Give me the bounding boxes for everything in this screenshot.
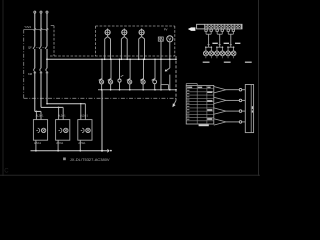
outgoing wire right xyxy=(175,56,177,101)
selector switch SA blade xyxy=(166,68,169,70)
drop to box2 right xyxy=(62,107,64,119)
svg-text:AP2x1: AP2x1 xyxy=(34,142,42,145)
outlet box 3 bottom stub xyxy=(79,140,81,151)
wire phase L2 lower xyxy=(40,71,42,107)
lamp pair labels xyxy=(203,61,210,63)
jumper loop xyxy=(161,84,169,86)
wire phase L2 upper xyxy=(40,14,42,47)
viewport frame xyxy=(2,0,4,176)
busduct text xyxy=(251,106,253,109)
wiring table xyxy=(186,85,214,124)
svg-text:QF: QF xyxy=(28,46,32,50)
svg-text:JX-DL/T5327-AC380V: JX-DL/T5327-AC380V xyxy=(70,157,110,162)
drop to box1 left xyxy=(35,111,37,119)
outlet box 2 xyxy=(56,120,70,141)
feeder run to box2 xyxy=(41,106,63,108)
svg-text:YJV4: YJV4 xyxy=(24,25,31,29)
svg-text:C: C xyxy=(4,169,9,175)
meter terminal blocks xyxy=(158,37,161,41)
incoming terminal circles L1 L2 L3 xyxy=(34,11,36,13)
feeder run to box1 xyxy=(35,110,41,112)
bus tag marker xyxy=(188,27,196,31)
wire phase L2 mid xyxy=(40,49,42,68)
bus from L3 xyxy=(47,58,176,60)
panel lamp HL3 xyxy=(141,28,143,29)
busduct xyxy=(245,85,253,133)
wire phase L1 lower xyxy=(34,71,36,111)
branch circuit 5 xyxy=(143,59,145,78)
panel lamp HL1 xyxy=(107,28,109,29)
neutral dashed bus / panel box bottom xyxy=(50,55,175,57)
leader line with conductor slashes xyxy=(24,29,49,31)
PE drop wire xyxy=(101,90,103,151)
table col1 marks xyxy=(187,86,189,88)
panel dashed box xyxy=(95,26,97,56)
signal lamp pair 3 xyxy=(227,29,229,31)
caption bullet xyxy=(63,158,66,161)
wire phase L1 mid xyxy=(34,49,36,68)
table header xyxy=(187,86,192,88)
signal lamp pair 1 xyxy=(205,29,207,31)
voltmeter PV xyxy=(167,36,173,42)
branch output bus xyxy=(98,89,176,91)
svg-text:AL2a-1: AL2a-1 xyxy=(36,114,44,117)
PE end marker xyxy=(107,149,109,153)
branch circuit 6 xyxy=(154,59,156,78)
outlet box 1 bottom stub xyxy=(35,140,37,151)
table cable texts xyxy=(207,91,212,93)
table footer label xyxy=(199,124,209,126)
voltmeter leg lower xyxy=(169,75,171,90)
svg-text:AL2a-1: AL2a-1 xyxy=(58,114,66,117)
breaker QF 3-pole with linkage xyxy=(33,46,35,49)
svg-text:PV: PV xyxy=(164,27,168,31)
PE bottom line xyxy=(31,150,108,152)
outlet box 3 xyxy=(78,120,92,141)
enclosure boundary left xyxy=(23,30,25,99)
outlet box 2 bottom stub xyxy=(57,140,59,151)
branch circuit 4 xyxy=(129,59,131,78)
contactor KM 3-pole xyxy=(34,68,35,71)
feeder run to box3 xyxy=(47,103,85,105)
strip drop labels xyxy=(212,42,217,44)
svg-text:AP2x1: AP2x1 xyxy=(78,142,86,145)
outgoing arrow xyxy=(173,101,176,106)
neutral hook xyxy=(51,25,54,27)
wire phase L3 upper xyxy=(46,14,48,47)
cable fan-out 3 xyxy=(214,108,226,111)
svg-text:AL2a-1: AL2a-1 xyxy=(80,114,88,117)
signal lamp pair 2 xyxy=(216,29,218,31)
wire phase L3 mid xyxy=(46,49,48,68)
branch circuit 3 xyxy=(119,59,121,78)
cable fan-out 2 xyxy=(214,97,226,100)
drop to box3 right xyxy=(84,104,86,120)
drop to box2 left xyxy=(58,107,60,119)
svg-text:AP2x1: AP2x1 xyxy=(56,142,64,145)
cable fan-out 4 xyxy=(214,119,226,122)
panel lamp HL2 xyxy=(123,28,125,29)
cable fan-out 1 xyxy=(214,87,226,90)
wire phase L1 upper xyxy=(34,14,36,47)
enclosure boundary bottom xyxy=(24,97,177,99)
branch circuit 1 xyxy=(101,59,103,78)
drop to box3 left xyxy=(80,104,82,120)
wire phase L3 lower xyxy=(46,71,48,104)
neutral dashed drop xyxy=(53,26,55,56)
meter terminal leg xyxy=(160,41,162,90)
branch circuit 2 xyxy=(110,59,112,78)
voltmeter leg upper xyxy=(169,42,171,68)
svg-text:KM: KM xyxy=(28,72,33,76)
terminal strip XT xyxy=(197,24,242,29)
outlet box 1 xyxy=(33,120,47,141)
drop to box1 right xyxy=(40,111,42,119)
